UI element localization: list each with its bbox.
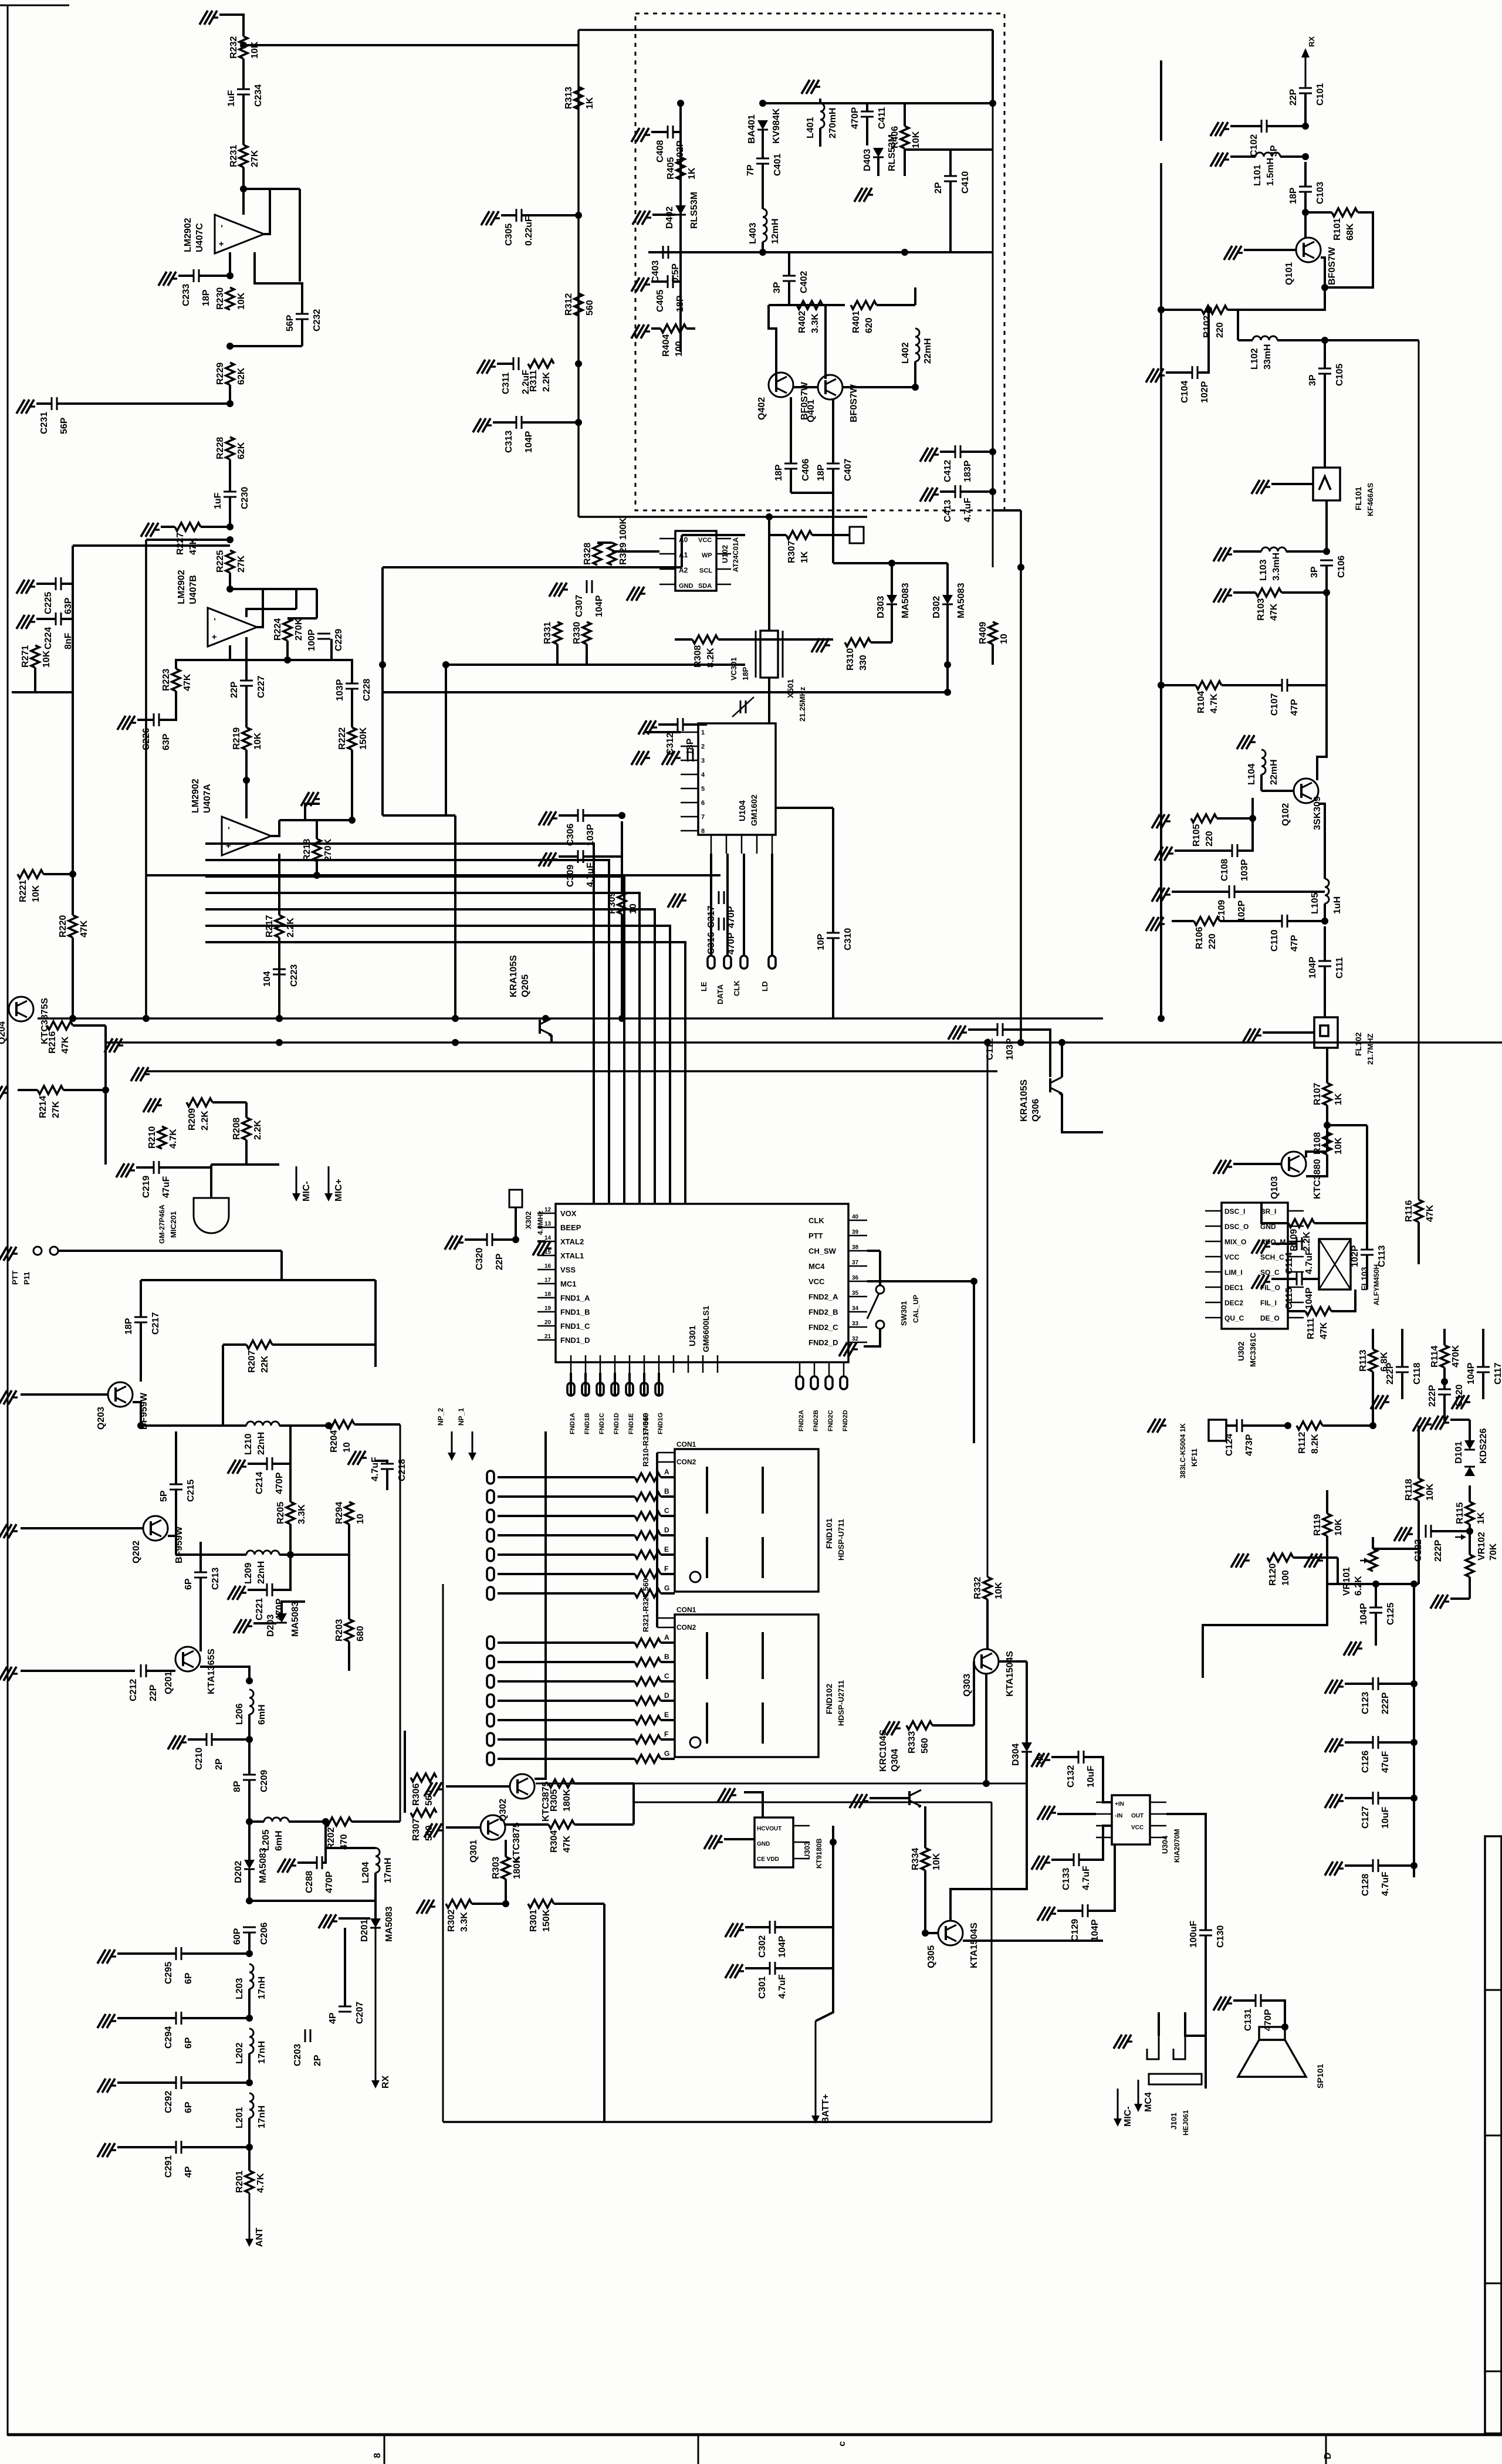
transistor Q306 KRA105S — [1049, 1078, 1051, 1092]
svg-text:KV984K: KV984K — [772, 108, 782, 144]
capacitor C226 63P — [153, 713, 155, 726]
node Q303 e — [983, 1780, 990, 1787]
resistor R204 10 — [329, 1420, 354, 1429]
U301 left pin XTAL1 — [537, 1255, 556, 1257]
capacitor C131 470P — [1255, 1994, 1257, 2007]
wire C288 up — [322, 1822, 326, 1863]
wire FL103 in — [1302, 1278, 1319, 1280]
ground G138 — [852, 1348, 858, 1350]
svg-text:NP_2: NP_2 — [437, 1408, 445, 1426]
svg-text:D304: D304 — [1011, 1744, 1021, 1766]
U301 left pin VOX — [537, 1213, 556, 1214]
wire C405 node — [673, 280, 681, 283]
capacitor C111 104P — [1318, 960, 1331, 962]
wire seg2 D to FND102 — [661, 1700, 675, 1702]
wire gnd C108 — [1175, 849, 1232, 852]
wire control staircase 2 — [205, 860, 609, 1204]
bus y881 to PLL — [579, 516, 867, 518]
ground G132 — [895, 1727, 901, 1729]
capacitor C114 4.7uF — [1296, 1237, 1298, 1250]
node C128 — [1410, 1862, 1418, 1869]
svg-text:R331: R331 — [543, 622, 553, 644]
svg-text:C224: C224 — [43, 627, 53, 649]
wire R222 down — [351, 750, 353, 820]
wire L105 dn — [1324, 903, 1326, 921]
svg-text:56P: 56P — [59, 417, 69, 434]
wire C406 d — [790, 469, 792, 493]
svg-text:C301: C301 — [757, 1976, 767, 1999]
terminal seg2 C stub — [487, 1675, 494, 1688]
svg-text:222P: 222P — [1433, 1539, 1443, 1562]
wire seg2 F to FND102 — [661, 1738, 675, 1741]
svg-text:R216: R216 — [48, 1031, 57, 1054]
svg-text:SCL: SCL — [699, 567, 712, 574]
inductor L203 17nH — [249, 1964, 253, 1989]
ground G119c — [1464, 1401, 1470, 1403]
wire diode rail — [833, 562, 948, 564]
wire to R223 — [176, 660, 230, 669]
wire R111 r — [1331, 1289, 1355, 1311]
svg-text:L210: L210 — [243, 1433, 253, 1455]
wire Q305 base — [925, 1932, 938, 1934]
ground G219 — [290, 1864, 296, 1866]
svg-text:R301: R301 — [529, 1910, 539, 1932]
svg-text:L104: L104 — [1247, 763, 1257, 785]
U301 right pin FND2_B — [848, 1311, 867, 1313]
svg-text:2.2K: 2.2K — [200, 1111, 210, 1131]
IC U104 GM1602 (PLL) — [698, 723, 776, 835]
wire R303 dn — [505, 1879, 507, 1904]
wire C109 r — [1234, 891, 1325, 893]
wire R218 down — [316, 861, 318, 875]
transistor Q203 BF959W — [108, 1382, 133, 1407]
svg-text:10K: 10K — [42, 650, 52, 668]
ground G310 — [494, 217, 500, 219]
ground G402 — [867, 194, 873, 195]
svg-text:BA401: BA401 — [747, 114, 757, 144]
wire L105 top — [1318, 804, 1325, 879]
svg-text:3: 3 — [701, 757, 705, 764]
wire C120 dn — [1443, 1395, 1446, 1421]
svg-text:102P: 102P — [1200, 381, 1210, 403]
svg-text:VCC: VCC — [1131, 1825, 1144, 1831]
wire D202 dn — [248, 1869, 251, 1901]
wire R401 right — [877, 304, 915, 306]
wire R330 d — [586, 644, 588, 665]
wire gnd C133 — [1051, 1859, 1074, 1861]
svg-text:10: 10 — [356, 1514, 366, 1524]
wire R294 join — [290, 1553, 349, 1556]
wire x124 lower — [72, 937, 74, 1018]
U104 bottom pin 12 — [756, 835, 758, 854]
ground ant 1 — [110, 1955, 116, 1957]
capacitor C410 2P — [944, 175, 957, 177]
svg-text:62K: 62K — [236, 442, 246, 459]
svg-text:4.7uF: 4.7uF — [777, 1974, 787, 1999]
wire x1080 sense — [632, 1783, 635, 1825]
svg-text:100P: 100P — [307, 629, 317, 651]
terminal seg1 F stub — [487, 1568, 494, 1580]
svg-text:Q401: Q401 — [806, 400, 816, 422]
resistor R315 560 — [635, 1570, 661, 1578]
svg-text:10K: 10K — [1425, 1483, 1435, 1501]
svg-text:R312: R312 — [564, 293, 574, 316]
capacitor C411 470P — [861, 111, 874, 113]
ground G409 — [644, 330, 650, 332]
svg-text:3P: 3P — [772, 282, 782, 293]
svg-text:C294: C294 — [164, 2026, 174, 2049]
wire Q202 collector — [168, 1536, 176, 1555]
svg-text:22mH: 22mH — [923, 338, 933, 364]
wire R205 up — [289, 1426, 292, 1502]
node R113 — [1369, 1422, 1376, 1429]
svg-text:D202: D202 — [234, 1861, 243, 1883]
svg-text:FL102: FL102 — [1354, 1032, 1363, 1056]
diode D201 MA5083 — [370, 1918, 381, 1928]
svg-text:C405: C405 — [655, 290, 665, 312]
U304 right pin 8 — [1150, 1802, 1166, 1803]
terminal NP2 — [451, 1431, 453, 1454]
svg-text:10K: 10K — [911, 131, 921, 148]
svg-text:1.5mH: 1.5mH — [1266, 158, 1276, 186]
capacitor C206 60P — [243, 1927, 256, 1928]
transistor Q401 BF0S7W — [818, 375, 843, 400]
wire pullups to U102 — [612, 550, 659, 553]
node C104 — [1205, 306, 1212, 313]
svg-text:C: C — [664, 1507, 669, 1515]
ground G113 — [1256, 1034, 1261, 1036]
svg-text:R228: R228 — [215, 437, 225, 459]
wire L403 down — [762, 242, 764, 252]
speaker SP101 — [1259, 2027, 1285, 2040]
svg-text:VCC: VCC — [698, 537, 712, 544]
svg-text:KTA1504S: KTA1504S — [969, 1923, 979, 1968]
diode D203 MA5083 — [276, 1613, 287, 1623]
wire D302 up — [946, 563, 949, 595]
svg-text:180K: 180K — [512, 1856, 522, 1879]
bus x1979 mid — [1160, 163, 1162, 685]
svg-text:C407: C407 — [843, 459, 853, 481]
wire C108 up — [1237, 818, 1253, 851]
terminal FND1B — [582, 1383, 589, 1396]
wire audio col — [1413, 1584, 1415, 1877]
wire R114 dn — [1443, 1368, 1446, 1389]
svg-text:R220: R220 — [58, 915, 68, 937]
svg-text:R303: R303 — [491, 1857, 501, 1879]
ground G112 — [1159, 923, 1165, 925]
wire gnd C123 — [1345, 1683, 1373, 1685]
node C124 — [1284, 1422, 1291, 1429]
ground ant 2 — [110, 2020, 116, 2022]
svg-text:MA5083: MA5083 — [384, 1906, 394, 1942]
wire L101 node — [1280, 155, 1305, 158]
junction x1979 y528 — [1158, 306, 1165, 313]
node y430 b — [901, 249, 908, 256]
svg-text:5: 5 — [701, 786, 705, 793]
transistor Q201 KTA1365S — [175, 1647, 200, 1671]
resistor R312 560 — [574, 293, 583, 316]
node out R222 — [349, 817, 356, 824]
resistor R205 3.3K — [286, 1502, 295, 1524]
svg-text:R306: R306 — [411, 1783, 421, 1806]
U301 right pin CLK — [848, 1220, 867, 1221]
U102 right pin 5 — [716, 584, 731, 585]
wire L104 dn — [1260, 774, 1263, 791]
capacitor C405 18P — [667, 275, 669, 288]
bus y1133 — [446, 664, 745, 666]
U302 pin LIM_I — [1205, 1271, 1222, 1273]
ground G313 — [681, 899, 686, 901]
wire R107 to Q103 b — [1326, 1125, 1328, 1152]
svg-text:MA5083: MA5083 — [901, 583, 911, 618]
wire Q201 base wire — [21, 1670, 135, 1672]
U301 bottom pin 30 — [673, 1355, 675, 1373]
svg-text:C413: C413 — [943, 500, 953, 522]
svg-text:MC4: MC4 — [808, 1262, 825, 1271]
svg-text:C317: C317 — [706, 906, 716, 928]
capacitor C232 56P — [296, 313, 309, 315]
svg-text:3.3K: 3.3K — [459, 1912, 469, 1932]
bus wire B5 — [147, 1070, 997, 1072]
wire R202 r — [351, 1820, 400, 1823]
svg-text:-: - — [209, 618, 219, 621]
wire gnd C309 — [559, 855, 578, 858]
wire R214 l — [18, 1089, 38, 1091]
capacitor C221 470P — [266, 1583, 268, 1596]
svg-text:B: B — [664, 1487, 669, 1495]
U301 left pin FND1_C — [537, 1325, 556, 1327]
svg-text:Q304: Q304 — [890, 1749, 900, 1772]
wire C213 up — [199, 1542, 202, 1572]
wire U407C output — [264, 189, 270, 234]
wire R101 loop — [1325, 212, 1373, 287]
svg-text:18P: 18P — [816, 464, 826, 481]
wire mic up — [210, 1165, 212, 1198]
ground G150 — [29, 585, 35, 587]
svg-text:150K: 150K — [358, 727, 368, 750]
wire seg1 C lead — [498, 1515, 635, 1517]
svg-text:XTAL1: XTAL1 — [560, 1251, 584, 1260]
svg-text:10uF: 10uF — [1086, 1765, 1096, 1788]
svg-text:C132: C132 — [1066, 1765, 1076, 1788]
terminal ANT — [249, 2193, 251, 2240]
wire PTT lead — [58, 1250, 282, 1252]
wire seg2 B to FND102 — [661, 1661, 675, 1663]
diode D304 1N — [1021, 1742, 1032, 1752]
svg-text:R305: R305 — [549, 1789, 559, 1812]
terminal MC4 arrow — [1138, 2080, 1139, 2105]
resistor R208 2.2K — [242, 1118, 251, 1140]
wire CLK up — [743, 854, 745, 956]
svg-text:L206: L206 — [235, 1703, 245, 1725]
svg-text:CON2: CON2 — [676, 1623, 696, 1632]
svg-text:R207: R207 — [247, 1351, 257, 1373]
svg-text:C126: C126 — [1361, 1751, 1371, 1773]
capacitor C305 0.22uF — [516, 209, 517, 222]
svg-text:L403: L403 — [748, 222, 758, 244]
svg-text:GND: GND — [1260, 1223, 1276, 1231]
inductor L402 22mH — [915, 329, 919, 361]
svg-text:1K: 1K — [1476, 1512, 1486, 1524]
wire seg1 G lead — [498, 1592, 635, 1595]
U302 pin AUO_M — [1288, 1241, 1304, 1243]
svg-text:10P: 10P — [816, 933, 826, 950]
capacitor C233 18P — [193, 269, 195, 282]
wire mcu vss — [537, 1240, 546, 1243]
ground G118b — [1383, 1401, 1389, 1403]
wire R332 to Q303 — [986, 1599, 989, 1649]
wire U304 gnd pin — [1057, 1813, 1096, 1815]
capacitor C124 473P — [1236, 1419, 1238, 1432]
svg-text:L201: L201 — [235, 2107, 245, 2128]
bus jog y1390 — [383, 814, 455, 817]
svg-text:A: A — [664, 1468, 669, 1476]
svg-text:Q204: Q204 — [0, 1021, 7, 1044]
resistor R310 560 — [635, 1473, 661, 1481]
wire seg1 A lead — [498, 1476, 635, 1478]
capacitor C413 4.7uF — [955, 485, 956, 498]
svg-text:220: 220 — [1215, 322, 1225, 338]
wire SW301 gnd — [864, 1329, 880, 1346]
wire fb split — [287, 617, 317, 620]
capacitor C317 470P — [718, 891, 720, 904]
terminal FND2C — [828, 1362, 830, 1376]
capacitor C218 4.7uF — [381, 1463, 394, 1465]
svg-text:U303: U303 — [803, 1842, 811, 1860]
svg-text:4: 4 — [701, 771, 705, 779]
node fb join — [284, 656, 291, 664]
wire C113 dn — [1366, 1255, 1368, 1289]
wire C110 node — [1287, 920, 1325, 922]
svg-text:C230: C230 — [240, 487, 250, 509]
svg-text:R208: R208 — [232, 1118, 242, 1140]
svg-text:CE VDD: CE VDD — [757, 1856, 779, 1863]
resistor R405 1K — [676, 157, 685, 180]
svg-text:560: 560 — [585, 300, 595, 316]
wire FL102 dn — [1326, 1048, 1328, 1083]
capacitor C102 3P — [1261, 120, 1263, 133]
svg-text:C403: C403 — [651, 260, 661, 283]
capacitor C223 104P — [273, 969, 286, 970]
svg-text:21.7MHZ: 21.7MHZ — [1366, 1033, 1375, 1065]
wire X501 down — [768, 678, 770, 723]
svg-text:473P: 473P — [1244, 1434, 1254, 1456]
wire node right — [230, 588, 296, 590]
capacitor C412 183P — [955, 445, 956, 458]
capacitor C309 4.7uF — [577, 850, 579, 863]
wire PTT down — [280, 1251, 283, 1280]
U302 pin GND — [1288, 1226, 1304, 1227]
potentiometer VR102 70K — [1466, 1555, 1474, 1577]
capacitor C227 22P — [240, 680, 253, 682]
wire control staircase 6 — [205, 926, 670, 1204]
capacitor C117 104P — [1477, 1366, 1490, 1368]
wire into U407A — [245, 780, 248, 818]
svg-text:R271: R271 — [21, 645, 31, 668]
capacitor C129 104P — [1082, 1904, 1084, 1917]
wire seg2 C to FND102 — [661, 1680, 675, 1683]
terminal RX out — [375, 1928, 377, 2081]
svg-text:R321-R327 560: R321-R327 560 — [641, 1578, 650, 1632]
svg-text:+: + — [209, 634, 219, 639]
terminal CLK — [740, 956, 747, 969]
svg-text:220: 220 — [1205, 831, 1215, 847]
diode D101b — [1464, 1467, 1475, 1476]
U104 bottom pin 10 — [726, 835, 728, 854]
node x180 — [102, 1087, 109, 1094]
wire sense to right — [634, 1802, 992, 1803]
svg-text:C313: C313 — [504, 431, 514, 453]
inductor L205 6mH — [264, 1817, 289, 1822]
svg-text:C131: C131 — [1243, 2009, 1253, 2031]
svg-text:ALFYM450H: ALFYM450H — [1372, 1264, 1381, 1305]
wire R307 right — [812, 534, 850, 536]
wire feedback down — [299, 189, 301, 282]
wire VR102 dn — [1469, 1577, 1471, 1599]
svg-text:21: 21 — [544, 1333, 552, 1340]
capacitor C122 222P — [1425, 1525, 1427, 1538]
U301 right pin FND2_D — [848, 1342, 867, 1343]
svg-text:FND2_A: FND2_A — [808, 1292, 838, 1301]
resistor R201 4.7K — [245, 2171, 253, 2193]
U301 right pin FND2_A — [848, 1296, 867, 1298]
node x124 bus3 — [69, 1015, 76, 1022]
svg-text:R401: R401 — [851, 311, 861, 333]
wire R102 l — [1161, 309, 1202, 311]
svg-text:104P: 104P — [1304, 1287, 1314, 1309]
svg-text:C410: C410 — [960, 171, 970, 194]
node D302 bus — [944, 689, 951, 696]
svg-text:10K: 10K — [31, 885, 41, 902]
svg-text:MA5083: MA5083 — [956, 583, 966, 618]
ground G320 — [562, 588, 568, 590]
wire C105 dn — [1324, 374, 1326, 468]
svg-text:U407A: U407A — [202, 784, 212, 813]
wire gnd C320 — [465, 1238, 487, 1241]
ground G213 — [361, 1457, 367, 1458]
ground G407 — [645, 216, 651, 218]
wire Q203 collector — [133, 1402, 141, 1426]
svg-text:33: 33 — [852, 1321, 859, 1327]
svg-text:100uF: 100uF — [1189, 1921, 1199, 1948]
wire gnd C104 — [1166, 371, 1192, 374]
wire C133 to U304 — [1079, 1826, 1112, 1860]
wire Q101 in — [1304, 212, 1307, 238]
svg-text:18P: 18P — [201, 289, 211, 306]
wire FND feeder 4 — [614, 1373, 616, 1396]
wire fb loop U407A — [305, 804, 320, 820]
svg-text:VR102: VR102 — [1477, 1532, 1487, 1561]
ground G141 — [129, 1169, 135, 1171]
capacitor C213 6P — [194, 1572, 207, 1573]
resistor R307 560 — [411, 1809, 437, 1817]
svg-text:47K: 47K — [79, 920, 89, 937]
svg-text:222P: 222P — [1427, 1385, 1437, 1407]
wire C131 node — [1261, 2001, 1285, 2027]
svg-text:C214: C214 — [255, 1472, 265, 1494]
terminal BATT+ — [815, 2021, 817, 2117]
ground G408 — [644, 283, 650, 285]
wire C302 node — [775, 1926, 833, 1928]
U301 right pin MC4 — [848, 1265, 867, 1267]
svg-text:FND1A: FND1A — [569, 1413, 576, 1434]
svg-text:R307: R307 — [787, 541, 797, 563]
wire LE up — [710, 854, 712, 956]
svg-text:C206: C206 — [259, 1923, 269, 1945]
resistor R309 10 — [618, 892, 626, 914]
wire C117 dn — [1482, 1372, 1484, 1399]
svg-text:10: 10 — [999, 634, 1009, 644]
